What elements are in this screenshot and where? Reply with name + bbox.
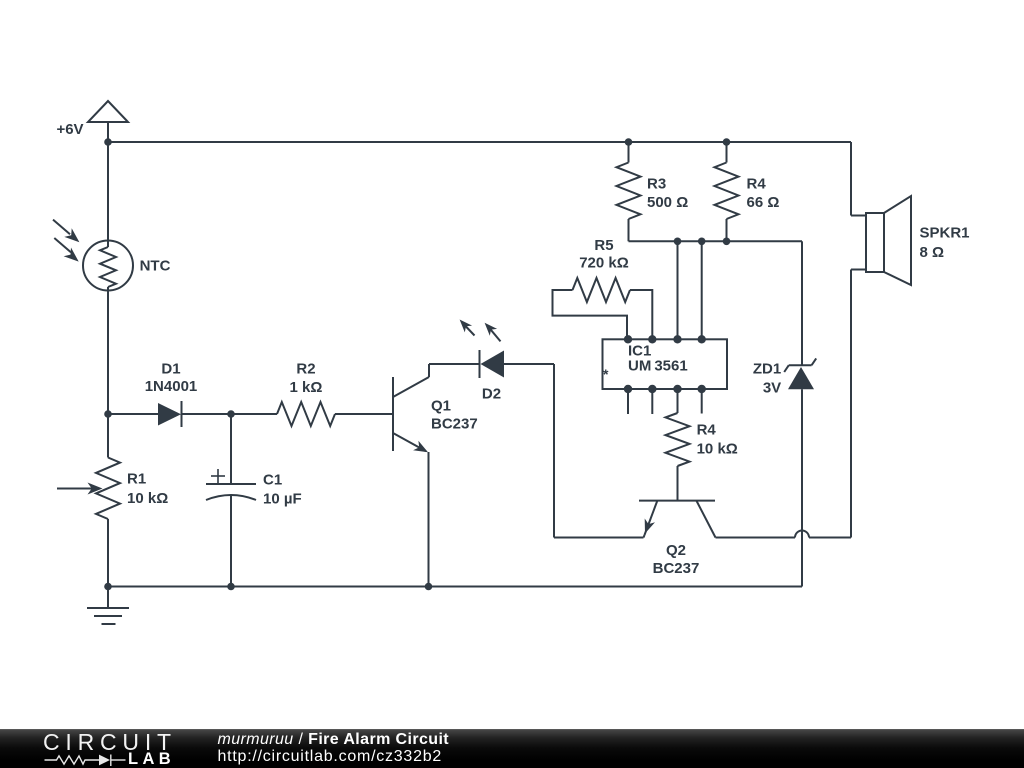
pin dot IC1 top 4 bbox=[698, 335, 706, 343]
wire C1 node to R2 bbox=[231, 413, 277, 415]
svg-text:R5: R5 bbox=[594, 237, 613, 254]
wire C1 to ground rail bbox=[230, 496, 232, 587]
svg-text:*: * bbox=[603, 366, 609, 382]
LED D2 bbox=[460, 320, 504, 379]
zener diode ZD1 bbox=[784, 358, 816, 389]
node junction C1 ground bbox=[227, 583, 235, 591]
wire ZD1 to ground rail bbox=[801, 389, 803, 586]
wire speaker to Q2 collector bbox=[851, 270, 866, 538]
resistor R3 bbox=[617, 142, 641, 241]
CircuitLab logo text bbox=[43, 731, 177, 754]
svg-text:ZD1: ZD1 bbox=[753, 361, 781, 378]
svg-text:R1: R1 bbox=[127, 471, 146, 488]
svg-text:BC237: BC237 bbox=[431, 416, 478, 433]
speaker SPKR1 bbox=[866, 196, 911, 285]
svg-text:+6V: +6V bbox=[56, 121, 83, 138]
pin dot IC1 top 3 bbox=[673, 335, 681, 343]
pin dot IC1 top 1 bbox=[624, 335, 632, 343]
svg-text:1N4001: 1N4001 bbox=[145, 378, 198, 395]
svg-text:8 Ω: 8 Ω bbox=[920, 244, 945, 261]
pin stub IC1 bottom 4 bbox=[701, 389, 703, 414]
wire node to R1 bbox=[107, 414, 109, 458]
svg-text:R4: R4 bbox=[747, 176, 767, 193]
wire hop over ZD1 line bbox=[795, 531, 809, 538]
wire Q1 collector to D2 bbox=[429, 363, 479, 365]
pin dot IC1 bottom 3 bbox=[673, 385, 681, 393]
node junction D1 branch bbox=[104, 410, 112, 418]
node junction at +6V bbox=[104, 138, 112, 146]
node junction C1 top bbox=[227, 410, 235, 418]
wire node to D1 bbox=[108, 413, 158, 415]
pin dot IC1 top 2 bbox=[648, 335, 656, 343]
svg-text:500 Ω: 500 Ω bbox=[647, 194, 688, 211]
node junction pin wire a bbox=[674, 238, 682, 246]
wire top rail bbox=[108, 141, 851, 143]
potentiometer R1 bbox=[57, 458, 120, 520]
svg-text:3V: 3V bbox=[763, 380, 781, 397]
svg-text:66 Ω: 66 Ω bbox=[747, 194, 780, 211]
wire D2 to corner bbox=[504, 363, 554, 365]
svg-text:D2: D2 bbox=[482, 386, 501, 403]
resistor R4 10k bbox=[666, 413, 690, 500]
node junction R4 top bbox=[723, 138, 731, 146]
wire Q2 collector right bbox=[716, 537, 796, 539]
svg-text:UM 3561: UM 3561 bbox=[628, 358, 688, 375]
wire C1 top lead bbox=[230, 414, 232, 484]
pin dot IC1 bottom 2 bbox=[648, 385, 656, 393]
pin dot IC1 bottom 1 bbox=[624, 385, 632, 393]
svg-text:C1: C1 bbox=[263, 472, 282, 489]
footer bar bbox=[0, 729, 1024, 768]
svg-text:1 kΩ: 1 kΩ bbox=[290, 379, 323, 396]
node junction Q1 emitter ground bbox=[425, 583, 433, 591]
wire down to Q2 emitter row bbox=[553, 364, 555, 538]
svg-text:R4: R4 bbox=[697, 422, 717, 439]
svg-text:R3: R3 bbox=[647, 176, 666, 193]
op-amp IC1 UM3561 box bbox=[603, 339, 728, 389]
wire R1 to ground rail bbox=[107, 519, 109, 587]
svg-text:D1: D1 bbox=[161, 361, 180, 378]
footer url bbox=[218, 749, 443, 765]
wire mid rail bbox=[629, 240, 803, 242]
svg-text:10 kΩ: 10 kΩ bbox=[127, 490, 168, 507]
wire rail to IC pin b bbox=[701, 241, 703, 339]
resistor R5 bbox=[553, 278, 653, 339]
svg-text:10 kΩ: 10 kΩ bbox=[697, 441, 738, 458]
pin stub IC1 bottom 1 bbox=[627, 389, 629, 414]
wire ground rail bbox=[108, 586, 802, 588]
wire D1 to C1 node bbox=[182, 413, 232, 415]
wire rail to IC pin a bbox=[677, 241, 679, 339]
wire NTC to node bbox=[107, 287, 109, 414]
transistor Q2 bbox=[639, 501, 716, 538]
wire to Q2 emitter bbox=[554, 537, 644, 539]
node junction R1 ground bbox=[104, 583, 112, 591]
wire +6V to NTC bbox=[107, 142, 109, 242]
wire rail to ZD1 bbox=[801, 241, 803, 365]
capacitor C1 bbox=[206, 469, 256, 500]
diode D1 bbox=[158, 401, 182, 427]
svg-text:NTC: NTC bbox=[140, 258, 171, 275]
pin dot IC1 bottom 4 bbox=[698, 385, 706, 393]
svg-text:720 kΩ: 720 kΩ bbox=[579, 255, 629, 272]
CircuitLab logo doodle (resistor+diode) bbox=[0, 729, 200, 768]
wire Q1 emitter down bbox=[428, 452, 430, 587]
svg-text:Q2: Q2 bbox=[666, 542, 686, 559]
wire IC pin3 to R4 bbox=[677, 389, 679, 413]
transistor Q1 bbox=[393, 364, 429, 452]
photoresistor NTC bbox=[53, 220, 133, 291]
resistor R4 66ohm bbox=[715, 142, 739, 241]
svg-text:10 µF: 10 µF bbox=[263, 491, 302, 508]
svg-text:SPKR1: SPKR1 bbox=[920, 225, 970, 242]
resistor R2 bbox=[277, 402, 335, 426]
svg-text:R2: R2 bbox=[296, 361, 315, 378]
wire R2 to Q1 base bbox=[335, 413, 393, 415]
svg-text:BC237: BC237 bbox=[653, 560, 700, 577]
svg-text:Q1: Q1 bbox=[431, 398, 451, 415]
wire top rail to speaker bbox=[851, 142, 866, 216]
pin stub IC1 bottom 2 bbox=[651, 389, 653, 414]
node junction R4 bottom bbox=[723, 238, 731, 246]
node junction R3 top bbox=[625, 138, 633, 146]
footer title bbox=[218, 732, 450, 748]
power supply +6V symbol bbox=[88, 101, 128, 142]
wire hop to speaker line bbox=[809, 537, 851, 539]
ground bbox=[87, 587, 129, 625]
node junction pin wire b bbox=[698, 238, 706, 246]
